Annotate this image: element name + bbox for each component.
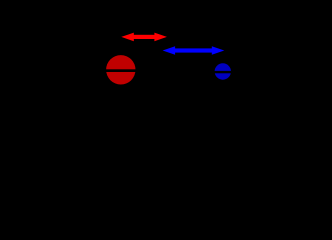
blue double-headed arrow (amplitude of blue ball)	[163, 46, 225, 55]
string line through blue ball	[215, 71, 232, 73]
blue ball (small mass)	[215, 63, 231, 79]
red double-headed arrow (amplitude of red ball)	[121, 33, 167, 42]
red ball (large mass)	[106, 55, 135, 84]
string line through red ball	[106, 69, 137, 72]
